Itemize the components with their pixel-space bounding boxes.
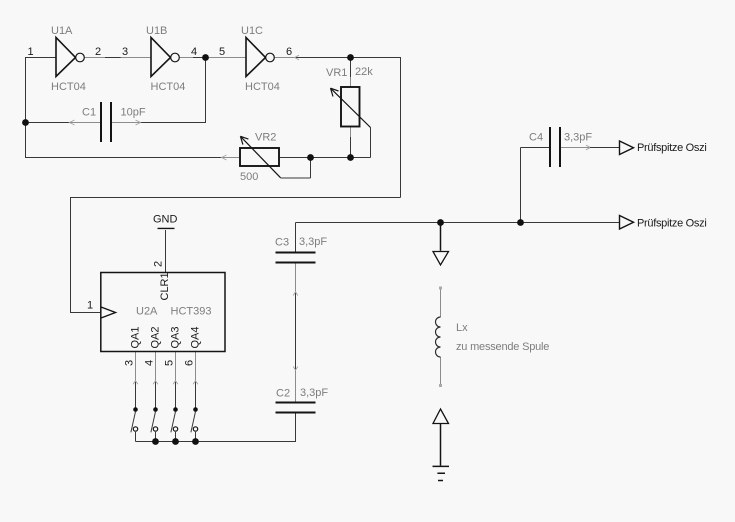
svg-text:4: 4	[144, 360, 156, 366]
wire U1B out to U1C in	[180, 57, 246, 59]
svg-text:1: 1	[87, 300, 93, 312]
wire U1C out to right rail	[275, 57, 295, 59]
wire switch bus	[136, 413, 296, 442]
wire oscillator row to counter clock pin1	[71, 198, 401, 313]
wire U1A out to U1B in	[85, 57, 151, 59]
connector arrow up	[433, 409, 449, 424]
svg-text:U1A: U1A	[51, 25, 73, 37]
inverter U1A	[56, 38, 76, 77]
svg-text:22k: 22k	[355, 66, 373, 78]
net arrows on QA wires	[133, 381, 198, 385]
svg-text:Prüfspitze Oszi: Prüfspitze Oszi	[637, 142, 706, 154]
wire C4 branch	[561, 147, 590, 149]
capacitor C2	[276, 403, 316, 413]
svg-text:1: 1	[28, 46, 34, 58]
svg-text:6: 6	[286, 46, 292, 58]
wire coil connector stub	[440, 223, 442, 251]
net arrow	[70, 120, 75, 125]
svg-text:U1B: U1B	[146, 25, 167, 37]
svg-text:3: 3	[124, 360, 136, 366]
inverter U1C	[246, 38, 266, 77]
svg-text:CLR1: CLR1	[159, 272, 171, 300]
svg-text:3,3pF: 3,3pF	[564, 132, 592, 144]
net arrow	[222, 155, 227, 160]
clock wedge	[101, 307, 116, 318]
svg-text:4: 4	[191, 46, 197, 58]
svg-text:3,3pF: 3,3pF	[300, 387, 328, 399]
wire QA pin stubs	[136, 352, 196, 382]
junction bus dots	[152, 438, 159, 445]
svg-text:Lx: Lx	[456, 322, 468, 334]
switch S1	[133, 407, 138, 412]
svg-text:10pF: 10pF	[121, 107, 146, 119]
wire QA nets to switches	[136, 382, 196, 409]
svg-text:QA3: QA3	[170, 326, 182, 348]
ground	[433, 466, 450, 480]
svg-text:QA2: QA2	[150, 326, 162, 348]
junction node pin6/VR1 top	[347, 54, 354, 61]
svg-text:HCT393: HCT393	[171, 306, 212, 318]
counter U2A	[101, 273, 225, 352]
wire VR1 branch vertical	[350, 58, 352, 158]
svg-text:2: 2	[153, 261, 165, 267]
svg-text:GND: GND	[153, 214, 178, 226]
net arrows on C2C3 vertical	[293, 292, 298, 370]
inductor Lx	[440, 288, 442, 385]
svg-text:QA4: QA4	[190, 326, 202, 348]
svg-text:5: 5	[219, 46, 225, 58]
trimmer VR2	[240, 148, 279, 166]
probe arrow top	[620, 141, 634, 155]
junction node C4	[517, 219, 524, 226]
switch S2	[153, 407, 158, 412]
svg-text:3,3pF: 3,3pF	[299, 236, 327, 248]
svg-text:6: 6	[184, 360, 196, 366]
inverter U1B	[151, 38, 171, 77]
svg-text:C2: C2	[276, 388, 290, 400]
svg-text:HCT04: HCT04	[51, 81, 86, 93]
svg-text:U2A: U2A	[136, 306, 158, 318]
junction node pin4	[202, 54, 209, 61]
svg-text:VR2: VR2	[255, 132, 276, 144]
svg-text:HCT04: HCT04	[245, 81, 280, 93]
svg-text:QA1: QA1	[130, 326, 142, 348]
wire to ground	[440, 424, 442, 466]
power GND	[158, 227, 175, 229]
svg-text:VR1: VR1	[326, 67, 347, 79]
junction node VR2 wiper	[307, 154, 314, 161]
junction node C1 left	[22, 119, 29, 126]
trimmer VR1	[341, 87, 360, 127]
wire C2 to C3 vertical	[295, 263, 297, 402]
svg-text:U1C: U1C	[241, 25, 263, 37]
connector arrow down	[433, 252, 449, 266]
wire GND to CLR1 pin2	[165, 230, 167, 272]
svg-text:C4: C4	[529, 132, 543, 144]
svg-text:HCT04: HCT04	[151, 81, 186, 93]
svg-text:C1: C1	[82, 107, 96, 119]
capacitor C1	[101, 102, 111, 142]
capacitor C4	[550, 127, 560, 167]
switch S3	[173, 407, 178, 412]
svg-text:2: 2	[95, 46, 101, 58]
probe arrow bottom	[620, 216, 634, 230]
svg-text:Prüfspitze Oszi: Prüfspitze Oszi	[637, 218, 706, 230]
svg-text:5: 5	[164, 360, 176, 366]
switch S4	[193, 407, 198, 412]
junction node VR1 bottom	[347, 154, 354, 161]
wire C3 top to output row	[296, 223, 620, 252]
svg-text:500: 500	[240, 171, 258, 183]
wire feedback row through C1	[26, 58, 206, 123]
net arrow	[136, 120, 141, 125]
wire input net: U1A pin1, left rail, bottom row to VR2/VR1	[26, 58, 371, 158]
svg-text:C3: C3	[275, 237, 289, 249]
junction node coil	[437, 219, 444, 226]
svg-text:zu messende Spule: zu messende Spule	[456, 341, 549, 353]
capacitor C3	[276, 253, 316, 263]
svg-text:3: 3	[122, 46, 128, 58]
